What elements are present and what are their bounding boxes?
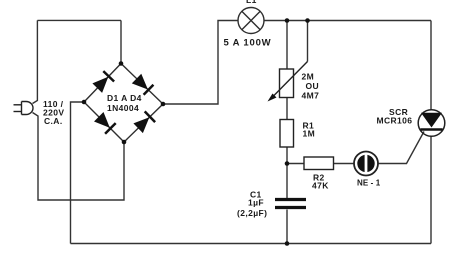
svg-text:47K: 47K xyxy=(312,181,329,191)
wire R1 bottom to node xyxy=(286,147,288,164)
AC plug P1 xyxy=(14,102,34,115)
svg-text:4M7: 4M7 xyxy=(302,91,320,101)
resistor R1 xyxy=(280,120,294,148)
wire right vertical to SCR anode xyxy=(430,21,432,111)
neon lamp NE-1 xyxy=(354,152,378,176)
wire R2 to NE-1 xyxy=(334,163,355,165)
wire potentiometer wiper drop xyxy=(307,21,309,62)
wire top-left horizontal rail xyxy=(37,19,121,21)
wire NE-1 to SCR gate xyxy=(378,132,424,164)
svg-text:(2,2µF): (2,2µF) xyxy=(237,208,267,218)
wire plug bottom to lower-left run xyxy=(33,113,125,201)
diode D4 (bottom-right) xyxy=(134,111,155,132)
node bridge bottom xyxy=(122,140,127,145)
wire left vertical from plug top to top rail xyxy=(33,20,38,103)
svg-text:D1 A D4: D1 A D4 xyxy=(107,93,142,103)
node top rail wiper branch xyxy=(305,18,310,23)
node bridge left xyxy=(82,100,87,105)
capacitor C1 xyxy=(275,200,306,208)
wire node down to C1 xyxy=(286,164,288,199)
potentiometer 2M/4M7 xyxy=(272,62,308,98)
svg-text:5 A 100W: 5 A 100W xyxy=(224,38,272,49)
node R1/R2/C1 junction xyxy=(285,161,290,166)
label D1 A D4 1N4004 xyxy=(107,93,142,113)
wire bridge top vertical xyxy=(120,20,122,63)
wire bridge right vertex to lamp xyxy=(163,21,238,105)
wire top rail down to potentiometer xyxy=(286,21,288,70)
wire SCR cathode to bottom rail xyxy=(430,136,432,244)
svg-text:1M: 1M xyxy=(303,129,316,139)
label C1 1uF (22uF) xyxy=(237,190,267,219)
svg-text:NE - 1: NE - 1 xyxy=(357,179,381,188)
diode D2 (top-right) xyxy=(133,75,154,95)
label R2 47K xyxy=(312,173,329,191)
lamp L1 xyxy=(238,8,264,34)
wire C1 to bottom rail xyxy=(286,210,288,244)
wire bottom ground rail xyxy=(71,243,432,245)
node top rail pot branch xyxy=(285,18,290,23)
svg-text:OU: OU xyxy=(306,81,320,91)
svg-text:2M: 2M xyxy=(302,72,315,82)
resistor R2 xyxy=(304,157,334,170)
label SCR MCR106 xyxy=(377,107,413,126)
SCR MCR106 xyxy=(418,110,445,137)
svg-text:C.A.: C.A. xyxy=(44,116,63,126)
diode D1 (top-left) xyxy=(93,71,114,92)
svg-text:L1: L1 xyxy=(246,0,257,5)
diode D3 (bottom-left) xyxy=(95,113,116,134)
svg-text:1µF: 1µF xyxy=(248,198,264,208)
label 110/220V C.A. xyxy=(43,99,64,126)
potentiometer arrowhead xyxy=(268,94,277,102)
svg-text:MCR106: MCR106 xyxy=(377,116,413,126)
wire potentiometer bottom to R1 xyxy=(286,98,288,120)
wire node to R2 xyxy=(287,163,304,165)
bridge diamond wires xyxy=(84,64,163,143)
node bottom rail C1 xyxy=(285,241,290,246)
wire bridge left vertex to bottom rail xyxy=(71,102,85,244)
node bridge right xyxy=(161,102,166,107)
label 2M OU 4M7 xyxy=(302,72,320,101)
node bridge top xyxy=(119,61,124,66)
wire top rail lamp to right corner xyxy=(264,20,431,22)
svg-text:1N4004: 1N4004 xyxy=(107,103,139,113)
label R1 1M xyxy=(303,121,316,139)
